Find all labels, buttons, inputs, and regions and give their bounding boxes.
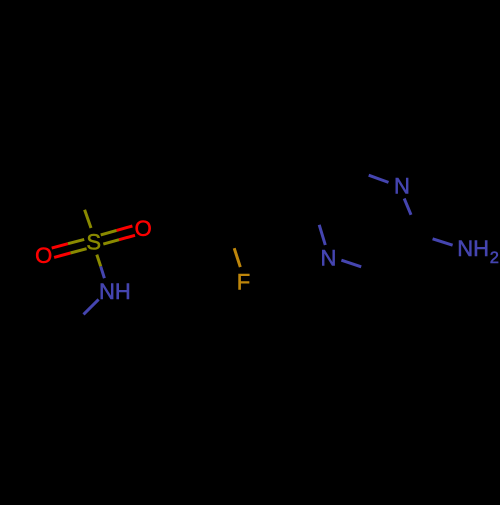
svg-text:N: N xyxy=(394,173,410,198)
S=O left: lower line xyxy=(70,249,86,253)
svg-text:2: 2 xyxy=(490,249,499,267)
svg-text:NH: NH xyxy=(99,279,131,304)
S=O right: lower line xyxy=(103,240,119,244)
ring C6-Nb (N half, blue) xyxy=(319,225,325,245)
svg-text:F: F xyxy=(237,270,250,295)
ring Na-C3 (N half, blue) xyxy=(404,199,411,215)
S=O right: upper line xyxy=(101,230,117,235)
NH-CH3 bond (N half, blue) xyxy=(84,299,99,314)
svg-text:N: N xyxy=(320,246,336,271)
S=O left: upper line xyxy=(68,239,84,243)
ring Nb-C4 (N half, blue) xyxy=(341,260,361,267)
svg-text:S: S xyxy=(86,230,101,255)
svg-text:O: O xyxy=(135,216,152,241)
svg-text:NH: NH xyxy=(457,236,489,261)
S-NH bond xyxy=(97,255,101,267)
svg-text:O: O xyxy=(35,243,52,268)
ring C1-Na (N half, blue) xyxy=(369,175,389,182)
C3-NH2 bond (N half, blue) xyxy=(433,239,453,245)
C-F bond (F half, goldenrod) xyxy=(234,248,240,267)
methyl-S bond (S half, olive) xyxy=(85,210,91,228)
